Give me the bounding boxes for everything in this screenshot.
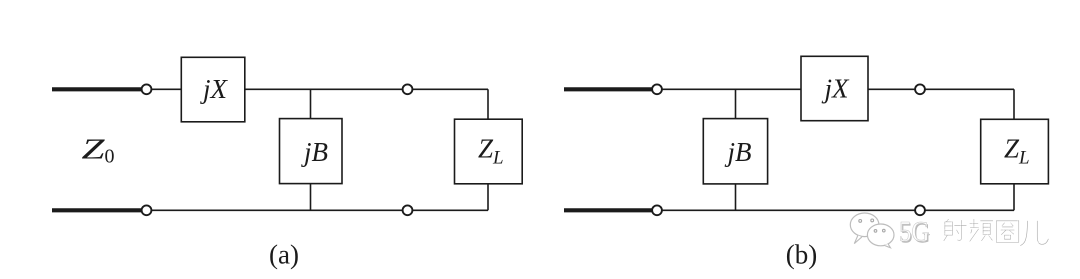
node: (b) load port top terminal [915,84,925,94]
wire: (a) top feed line (thick) [52,87,142,91]
wire: (a) load branch vertical [487,89,489,210]
svg-text:jB: jB [725,137,752,167]
wire: (b) bottom feed line (thick) [564,208,653,212]
watermark: WeChat logo small bubble tail [884,244,890,248]
node: (b) load port bottom terminal [915,205,925,215]
watermark: WeChat logo big bubble tail [854,235,862,243]
component: (b) load impedance ZL box [981,119,1049,184]
component: (a) shunt susceptance jB box [280,119,343,184]
svg-text:5G: 5G [899,216,930,248]
component: (a) series reactance jX box [181,57,245,122]
component: (b) series reactance jX box [801,56,868,120]
node: (a) load port top terminal [403,84,413,94]
wire: (a) bottom conductor from input port to load corner [147,209,489,211]
wire: (a) shunt branch for jB [310,89,312,210]
svg-text:0: 0 [105,146,115,168]
wire: (b) load branch vertical [1013,89,1015,210]
wire: (b) bottom conductor from input port to load corner [657,209,1014,211]
wire: (b) top feed line (thick) [564,87,653,91]
wire: (a) top conductor from input port to load corner [147,88,489,90]
node: (a) input port top terminal [142,84,152,94]
watermark: WeChat logo small bubble [867,224,894,246]
node: (a) input port bottom terminal [142,205,152,215]
svg-text:Z: Z [82,134,106,166]
svg-text:(b): (b) [786,240,817,270]
node: (b) input port top terminal [652,84,662,94]
component: (b) shunt susceptance jB box [703,119,767,184]
watermark: WeChat logo big bubble eyes [859,219,874,222]
watermark: WeChat logo big bubble [850,213,879,237]
svg-text:jX: jX [822,74,851,104]
wire: (a) bottom feed line (thick) [52,208,142,212]
wire: (b) top conductor from input port to load corner [657,88,1014,90]
node: (b) input port bottom terminal [652,205,662,215]
svg-text:jB: jB [301,137,328,167]
watermark: WeChat logo small bubble eyes [874,229,885,232]
svg-text:(a): (a) [269,240,299,270]
watermark: CJK shadow pass [944,219,1048,245]
wire: (b) shunt branch for jB [735,89,737,210]
watermark: CJK white face pass [943,218,1047,244]
svg-text:jX: jX [200,74,229,104]
component: (a) load impedance ZL box [455,119,523,184]
node: (a) load port bottom terminal [403,205,413,215]
